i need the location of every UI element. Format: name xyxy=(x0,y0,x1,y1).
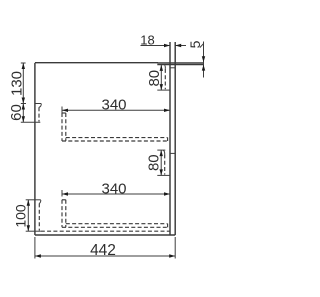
svg-text:5: 5 xyxy=(187,40,203,48)
svg-text:18: 18 xyxy=(140,32,154,47)
svg-text:100: 100 xyxy=(12,204,28,228)
svg-text:130: 130 xyxy=(8,71,25,96)
svg-text:442: 442 xyxy=(90,242,116,259)
svg-text:340: 340 xyxy=(101,181,126,198)
svg-text:80: 80 xyxy=(146,70,163,87)
svg-text:60: 60 xyxy=(8,104,25,121)
svg-text:340: 340 xyxy=(101,96,126,113)
svg-text:80: 80 xyxy=(146,154,163,171)
